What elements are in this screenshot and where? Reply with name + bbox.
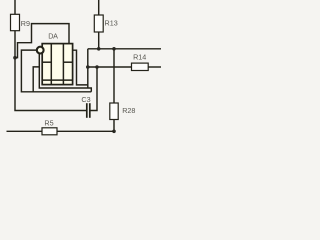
wire C3 right plate to R14 line junction bbox=[90, 67, 97, 111]
resistor R13 bbox=[94, 15, 103, 32]
svg-text:R14: R14 bbox=[133, 53, 146, 62]
node junction dot R28 wire on top line bbox=[112, 47, 116, 51]
wire bottom line from R5 to R28 junction bbox=[57, 130, 114, 132]
op-amp DA input circle bbox=[37, 47, 44, 54]
resistor R5 bbox=[42, 128, 57, 135]
wire R13 bottom to junction on top-right line bbox=[98, 32, 100, 49]
svg-text:R28: R28 bbox=[122, 106, 135, 115]
component internal horizontal bottom line bbox=[42, 79, 72, 81]
resistor R28 bbox=[110, 103, 118, 120]
resistor R14 bbox=[132, 63, 149, 70]
wire jog branch from circle-bottom riser to L3 bbox=[33, 67, 39, 92]
svg-text:R13: R13 bbox=[105, 19, 118, 28]
wire left vertical from top edge through R9 down to bottom corner bbox=[14, 0, 16, 14]
wire R28 from top line down to box bbox=[113, 49, 115, 103]
wire top-right horizontal line to right edge bbox=[88, 48, 161, 50]
node junction dot C3-right on R14 line bbox=[95, 65, 99, 69]
wire R28 bottom to bottom line bbox=[113, 120, 115, 132]
svg-text:DA: DA bbox=[48, 32, 58, 41]
component internal vertical line 2 bbox=[62, 44, 64, 85]
node junction dot R14-line left end bbox=[86, 65, 90, 69]
wire loop L3 from circle left pin down and right bbox=[21, 50, 91, 92]
wire from node A up and right to DA top pin bbox=[15, 24, 69, 58]
capacitor C3 plate 2 bbox=[89, 103, 91, 118]
node junction dot R13 on line bbox=[97, 47, 101, 51]
wire top-right net vertical down to loop L2 bbox=[87, 49, 89, 88]
resistor R9 bbox=[11, 14, 20, 30]
node junction dot on left wire bbox=[13, 56, 17, 60]
wire R14 right to edge bbox=[148, 66, 161, 68]
wire R9 bottom to corner then right to C3 left plate bbox=[15, 31, 86, 111]
wire DA right pin to down-left corner bbox=[73, 50, 88, 85]
node junction dot R28 bottom bbox=[112, 130, 116, 134]
svg-text:R9: R9 bbox=[21, 19, 30, 28]
svg-text:C3: C3 bbox=[81, 95, 90, 104]
wire R13 top from edge bbox=[98, 0, 100, 15]
component rung left column bbox=[42, 61, 51, 63]
op-amp DA body bbox=[42, 44, 72, 85]
component rung right column bbox=[63, 61, 72, 63]
component internal vertical line 1 bbox=[50, 44, 52, 85]
svg-text:R5: R5 bbox=[44, 118, 53, 127]
wire loop L2 from circle bottom pin down and right bbox=[39, 53, 91, 92]
wire R14 line from left vertical to right edge bbox=[88, 66, 132, 68]
capacitor C3 plate 1 bbox=[86, 103, 88, 118]
wire bottom line left segment to R5 bbox=[7, 130, 43, 132]
